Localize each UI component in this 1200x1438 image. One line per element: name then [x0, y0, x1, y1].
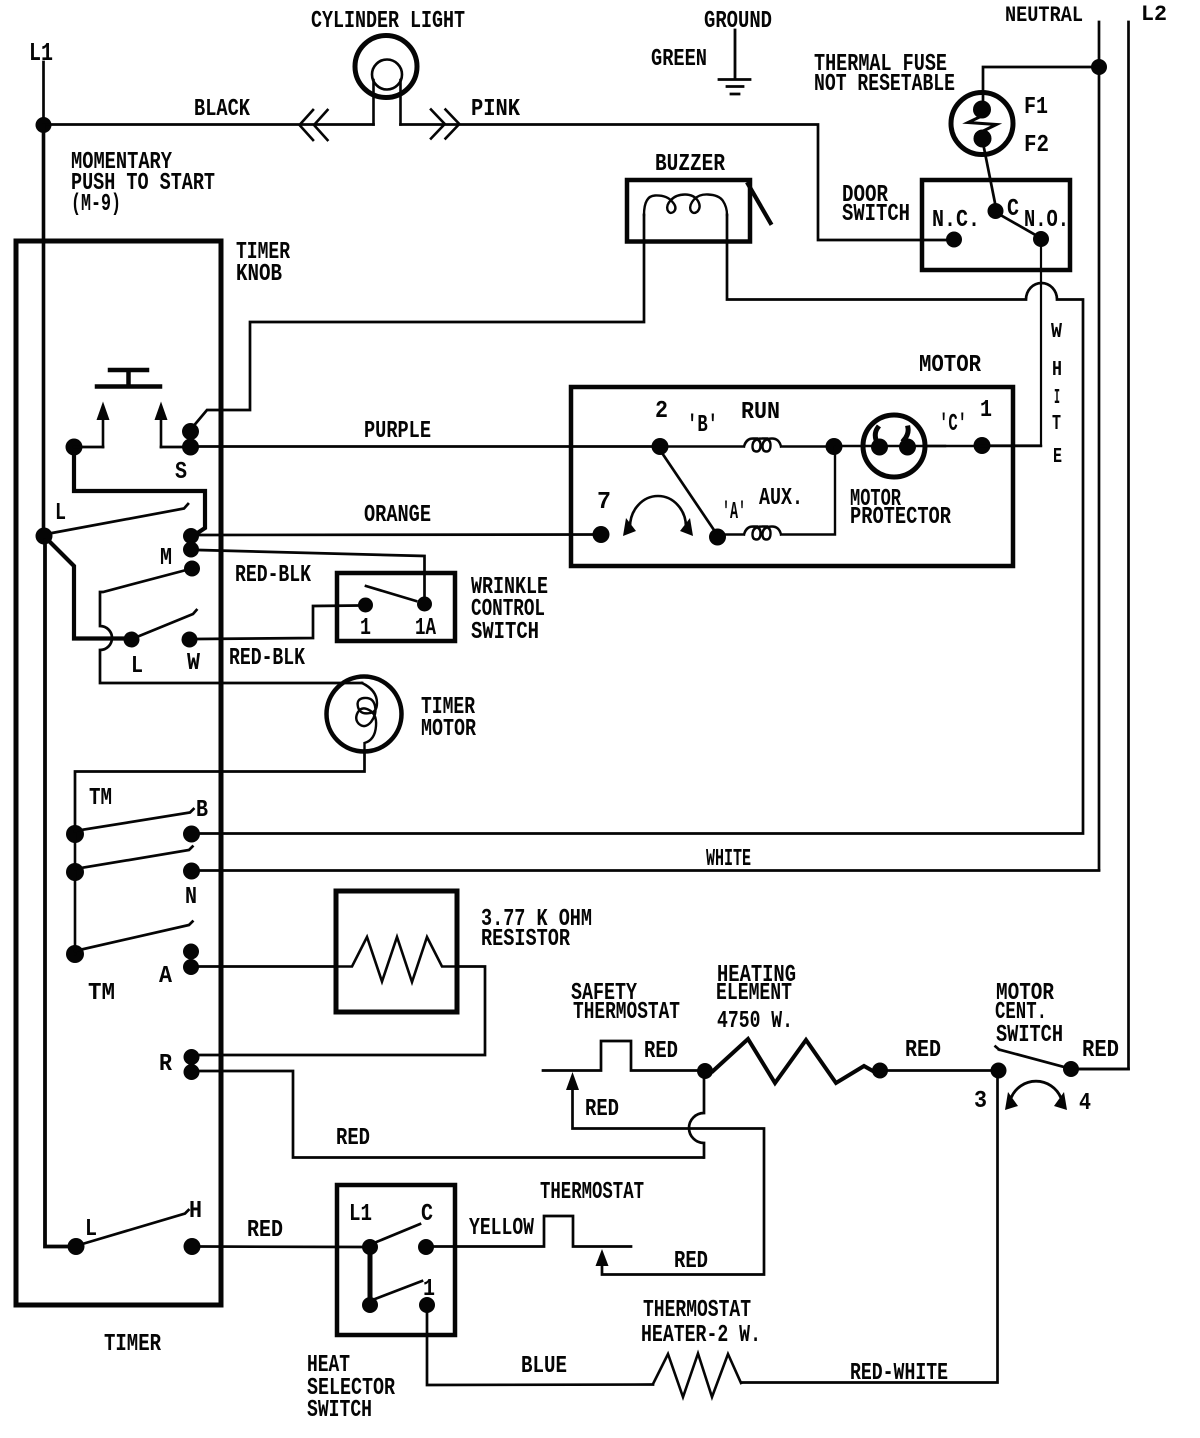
node H: [184, 1238, 201, 1255]
svg-text:SWITCH: SWITCH: [307, 1397, 372, 1424]
svg-text:THERMOSTAT: THERMOSTAT: [573, 999, 680, 1026]
svg-text:RED-BLK: RED-BLK: [229, 645, 305, 672]
wire right arrow to S: [161, 446, 185, 449]
wire 3 down to red-white: [742, 1078, 998, 1383]
node motor mid: [826, 438, 843, 455]
switch arm L to S: [52, 504, 188, 533]
svg-text:7: 7: [597, 489, 611, 516]
svg-text:THERMOSTAT: THERMOSTAT: [540, 1179, 644, 1206]
wire NEUTRAL vertical: [1098, 22, 1101, 870]
svg-text:L2: L2: [1141, 2, 1167, 27]
node heater left junction: [697, 1063, 713, 1079]
svg-text:L: L: [55, 500, 66, 527]
buzzer coil: [644, 194, 727, 215]
push start left arrow: [102, 418, 105, 447]
switch arm TM-B: [75, 809, 194, 831]
wire A to resistor: [199, 965, 337, 968]
node L1 selector: [362, 1239, 378, 1255]
svg-text:BLUE: BLUE: [521, 1353, 567, 1380]
svg-text:4: 4: [1079, 1090, 1091, 1117]
resistor 3.77K zigzag: [336, 937, 457, 982]
wire L1 to bottom L contact: [45, 540, 68, 1247]
wrinkle control switch box: [337, 573, 455, 641]
svg-text:1: 1: [980, 397, 992, 424]
switch arm selector lower: [375, 1281, 422, 1299]
wire TM link: [74, 834, 77, 954]
wire R red to heater junction: [199, 1071, 703, 1158]
svg-text:ORANGE: ORANGE: [364, 502, 431, 529]
wire M mid to wrinkle 1A: [199, 550, 425, 597]
node TM contacts: [66, 825, 84, 843]
wire protector to 1: [925, 445, 1041, 447]
svg-text:A: A: [159, 963, 173, 990]
svg-text:TIMER: TIMER: [104, 1331, 161, 1358]
aux winding: [725, 447, 835, 540]
node motor A: [709, 529, 726, 546]
buzzer box: [627, 180, 750, 242]
svg-text:MOTOR: MOTOR: [421, 716, 476, 743]
ground symbol: [719, 30, 750, 94]
wire buzzer left lead to push start: [192, 215, 645, 429]
svg-text:I: I: [1054, 387, 1060, 410]
node W: [182, 632, 198, 648]
svg-text:'A': 'A': [722, 499, 746, 526]
node motor 1: [974, 437, 991, 454]
svg-text:3: 3: [974, 1088, 987, 1115]
svg-text:SWITCH: SWITCH: [471, 619, 539, 646]
svg-text:RED: RED: [905, 1037, 941, 1064]
svg-text:S: S: [175, 459, 187, 486]
svg-text:N.O.: N.O.: [1024, 207, 1069, 234]
svg-text:BUZZER: BUZZER: [655, 151, 725, 178]
timer motor filament: [356, 683, 377, 752]
wire L1 inside timer: [42, 125, 46, 528]
svg-text:BLACK: BLACK: [194, 96, 250, 123]
buzzer striker: [748, 184, 771, 223]
push start right arrow: [160, 418, 163, 447]
wire thick left contact to M: [74, 455, 205, 534]
wire junction drop with hop: [689, 1079, 704, 1158]
node 1 selector: [419, 1297, 435, 1313]
wire H to heat selector: [200, 1245, 362, 1248]
node N.C.: [946, 232, 962, 248]
svg-text:'C': 'C': [939, 411, 967, 438]
wire M bottom to timer motor: [100, 569, 362, 684]
door switch box: [922, 180, 1070, 270]
wire element to cent switch: [888, 1069, 990, 1072]
wire left contact to arrow: [74, 446, 103, 449]
switch arm cent: [996, 1047, 1065, 1068]
node R contacts: [184, 1049, 200, 1065]
wire resistor to R: [200, 967, 485, 1056]
chevrons right on pink wire: [431, 110, 459, 139]
svg-text:HEATER-2 W.: HEATER-2 W.: [641, 1322, 761, 1349]
switch arm L-H: [84, 1210, 189, 1244]
svg-text:MOTOR: MOTOR: [919, 352, 982, 379]
svg-text:RED: RED: [644, 1038, 678, 1065]
wire fuse to neutral: [983, 67, 1099, 104]
svg-text:PURPLE: PURPLE: [364, 418, 431, 445]
node L bottom: [68, 1238, 85, 1255]
svg-text:NOT RESETABLE: NOT RESETABLE: [814, 71, 955, 98]
wire PURPLE: [199, 445, 660, 448]
fuse thermal fuse: [951, 93, 1013, 155]
svg-text:RED: RED: [1082, 1037, 1119, 1064]
svg-text:C: C: [421, 1201, 433, 1228]
svg-text:2: 2: [655, 398, 668, 425]
node motor 7: [593, 526, 610, 543]
svg-text:KNOB: KNOB: [236, 261, 282, 288]
wire timer motor bottom lead: [75, 752, 365, 826]
wire ORANGE: [199, 533, 601, 536]
wire N.O. to motor 1: [990, 247, 1041, 446]
motor curved arrow: [630, 496, 686, 527]
thermostat heater zigzag: [653, 1354, 741, 1398]
lamp timer motor: [327, 677, 402, 752]
safety thermostat: [543, 1041, 697, 1071]
wire N to neutral (WHITE): [200, 869, 1099, 872]
node wrinkle 1A: [417, 597, 432, 612]
svg-text:L: L: [131, 653, 143, 680]
node C selector: [418, 1239, 434, 1255]
switch arm 2 to A: [660, 450, 716, 533]
svg-text:PROTECTOR: PROTECTOR: [850, 504, 951, 531]
thermostat arrow: [596, 1249, 609, 1266]
node junction L1/black: [36, 117, 52, 133]
svg-text:4750 W.: 4750 W.: [717, 1008, 793, 1035]
node wrinkle 1: [358, 598, 373, 613]
node N: [183, 863, 200, 880]
node L main: [36, 528, 53, 545]
wire YELLOW with thermostat: [434, 1216, 631, 1247]
svg-text:L1: L1: [29, 38, 53, 68]
wire BLUE: [427, 1313, 653, 1385]
node 3: [991, 1063, 1007, 1079]
resistor box: [336, 891, 457, 1012]
wire BLACK: [44, 123, 374, 126]
svg-text:RED: RED: [585, 1096, 619, 1123]
timer box: [16, 241, 221, 1305]
node motor 2: [652, 438, 669, 455]
svg-text:GREEN: GREEN: [651, 46, 707, 73]
node lower left selector: [362, 1297, 378, 1313]
switch arm door: [997, 213, 1039, 237]
switch arm wrinkle: [366, 586, 416, 601]
switch arm lower L: [138, 610, 197, 637]
svg-text:E: E: [1053, 446, 1062, 469]
lamp cylinder light: [355, 36, 417, 125]
svg-text:TM: TM: [89, 785, 112, 812]
svg-text:T: T: [1052, 413, 1061, 436]
svg-text:RESISTOR: RESISTOR: [481, 926, 570, 953]
svg-text:1: 1: [360, 615, 371, 642]
safety thermostat arrow: [566, 1072, 579, 1090]
motor protector: [863, 415, 925, 477]
svg-text:R: R: [159, 1051, 173, 1078]
node A contacts: [183, 944, 199, 960]
run winding: [660, 439, 826, 452]
svg-text:WHITE: WHITE: [706, 846, 751, 873]
wire W to wrinkle 1: [197, 606, 358, 640]
node push start left contact: [66, 439, 83, 456]
wire L2 vertical: [1079, 22, 1129, 1069]
wire fuse to door switch C: [983, 143, 996, 208]
cent switch curved arrow: [1011, 1081, 1061, 1098]
node N.O.: [1033, 231, 1049, 247]
heating element zigzag: [713, 1039, 872, 1083]
svg-text:SWITCH: SWITCH: [996, 1022, 1063, 1049]
node neutral junction: [1091, 59, 1107, 75]
wire thick L to lower L contact: [50, 542, 124, 639]
svg-text:1A: 1A: [415, 615, 436, 642]
svg-text:RED: RED: [247, 1217, 283, 1244]
svg-text:GROUND: GROUND: [704, 8, 772, 35]
node C: [988, 203, 1004, 219]
svg-text:(M-9): (M-9): [71, 191, 121, 218]
svg-text:L1: L1: [349, 1201, 372, 1228]
svg-text:M: M: [160, 545, 172, 572]
svg-text:H: H: [1052, 359, 1062, 382]
svg-text:THERMOSTAT: THERMOSTAT: [643, 1297, 751, 1324]
svg-text:ELEMENT: ELEMENT: [716, 980, 792, 1007]
switch arm TM-N: [75, 847, 193, 870]
node S contacts: [182, 423, 199, 440]
svg-text:F2: F2: [1024, 132, 1049, 159]
svg-text:RED-WHITE: RED-WHITE: [850, 1360, 948, 1387]
node element right: [872, 1063, 888, 1079]
svg-text:L: L: [85, 1216, 97, 1243]
svg-text:RED: RED: [674, 1248, 708, 1275]
svg-text:NEUTRAL: NEUTRAL: [1005, 3, 1083, 28]
wire selector link bar: [368, 1247, 373, 1305]
node B: [183, 826, 200, 843]
svg-text:PINK: PINK: [471, 96, 521, 123]
switch arm TM-A: [75, 922, 193, 952]
switch arm selector upper: [374, 1224, 420, 1243]
svg-text:CYLINDER LIGHT: CYLINDER LIGHT: [311, 8, 465, 35]
svg-text:TM: TM: [88, 980, 115, 1007]
svg-text:W: W: [187, 650, 201, 677]
node 4: [1063, 1061, 1079, 1077]
svg-text:'B': 'B': [687, 412, 718, 439]
svg-text:SWITCH: SWITCH: [842, 201, 910, 228]
wire 4 to L2: [1079, 1068, 1129, 1071]
wire L1 drop: [42, 62, 45, 125]
svg-text:H: H: [189, 1198, 202, 1225]
svg-text:B: B: [196, 797, 208, 824]
heat selector box: [337, 1185, 455, 1335]
node M contacts: [183, 528, 199, 544]
svg-text:AUX.: AUX.: [759, 485, 803, 512]
svg-text:RED: RED: [336, 1125, 370, 1152]
svg-text:F1: F1: [1024, 94, 1048, 121]
wire PINK to door switch: [401, 125, 948, 241]
motor box: [571, 387, 1013, 566]
svg-text:N: N: [185, 884, 197, 911]
svg-text:YELLOW: YELLOW: [469, 1215, 534, 1242]
svg-text:RED-BLK: RED-BLK: [235, 562, 311, 589]
node L lower: [124, 632, 140, 648]
push button actuator: [97, 370, 160, 387]
svg-text:RUN: RUN: [741, 399, 780, 426]
chevrons left on black wire: [300, 110, 328, 140]
svg-text:N.C.: N.C.: [932, 207, 980, 234]
svg-text:W: W: [1051, 321, 1062, 344]
wire buzzer right lead to B contact: [200, 215, 1083, 834]
